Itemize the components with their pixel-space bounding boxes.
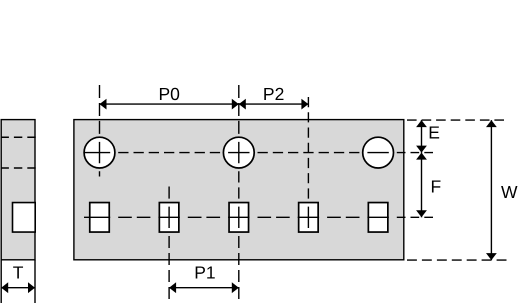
dimension W bbox=[490, 120, 492, 260]
svg-text:F: F bbox=[431, 176, 442, 196]
svg-text:T: T bbox=[13, 263, 24, 283]
tape side-view strip bbox=[1, 120, 35, 260]
hidden sprocket-hole top edge (side view) bbox=[1, 136, 36, 138]
svg-text:E: E bbox=[428, 123, 440, 143]
main tape top-view plate bbox=[74, 120, 404, 260]
vertical centre line through sprocket hole 2 / pocket 3 bbox=[238, 85, 240, 299]
pocket horizontal centre line bbox=[84, 216, 433, 218]
dimension P1 bbox=[169, 287, 239, 289]
component pocket 3 bbox=[229, 203, 249, 233]
T extension lines bbox=[0, 260, 2, 303]
hidden sprocket-hole bottom edge (side view) bbox=[1, 167, 36, 169]
sprocket-hole horizontal centre line bbox=[84, 152, 433, 154]
sprocket hole 1 bbox=[84, 137, 115, 168]
component pocket 1 bbox=[90, 203, 110, 233]
pocket cutout in side view bbox=[13, 203, 36, 233]
component pocket 4 bbox=[299, 203, 319, 233]
dimension P2 bbox=[239, 103, 309, 105]
component pocket 2 bbox=[159, 203, 179, 233]
dimension F bbox=[421, 153, 423, 218]
svg-text:W: W bbox=[501, 182, 518, 202]
dimension P0 bbox=[100, 103, 239, 105]
svg-text:P1: P1 bbox=[194, 263, 215, 283]
vertical centre line through pocket 4 bbox=[307, 97, 309, 228]
dimension T bbox=[1, 287, 35, 289]
dimension E bbox=[421, 120, 423, 153]
vertical centre line through pocket 2 bbox=[168, 187, 170, 300]
vertical centre line through sprocket hole 1 bbox=[99, 85, 101, 177]
sprocket hole 2 bbox=[223, 137, 254, 168]
component pocket 5 bbox=[368, 203, 388, 233]
bottom edge extension dashed line bbox=[407, 259, 507, 261]
svg-text:P0: P0 bbox=[158, 84, 180, 104]
sprocket hole 3 bbox=[363, 137, 394, 168]
top edge extension dashed line bbox=[407, 119, 504, 121]
svg-text:P2: P2 bbox=[263, 84, 284, 104]
